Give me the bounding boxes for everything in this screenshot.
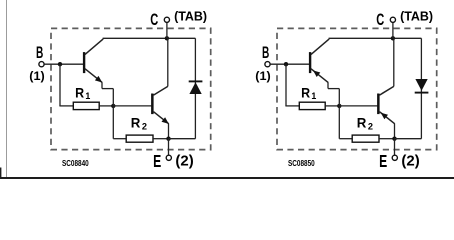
wire R1 to node X	[325, 105, 339, 107]
transistor Q2 base bar	[151, 94, 154, 115]
wire R1 to node X	[99, 105, 113, 107]
diode D1 (anode at C, cathode at E)	[415, 79, 427, 91]
svg-text:1: 1	[311, 91, 316, 101]
svg-text:2: 2	[142, 121, 147, 131]
diode D1 (anode at E, cathode at C)	[189, 80, 203, 82]
svg-text:B: B	[262, 43, 269, 62]
svg-text:R: R	[75, 84, 84, 100]
svg-text:1: 1	[85, 91, 90, 101]
transistor Q1 collector	[311, 39, 329, 55]
wire C rail down to Q2 collector	[167, 38, 169, 86]
svg-text:(2): (2)	[175, 153, 193, 170]
svg-text:E: E	[153, 151, 161, 171]
wire junction down to R1	[285, 64, 287, 106]
junction node C	[165, 36, 169, 40]
svg-text:(1): (1)	[29, 69, 44, 83]
wire Q1 emitter jog to node X	[327, 82, 329, 88]
junction node C	[391, 36, 395, 40]
transistor Q2 emitter	[380, 112, 395, 124]
transistor Q1 base bar	[83, 52, 85, 73]
svg-text:C: C	[376, 10, 384, 29]
diode branch wire	[194, 38, 196, 138]
resistor R1	[73, 102, 99, 109]
transistor Q1 emitter arrow (NPN)	[95, 76, 102, 83]
wire Q2 emitter down to node E	[394, 123, 396, 138]
transistor Q2 emitter arrow (NPN)	[162, 117, 169, 124]
svg-text:C: C	[150, 10, 158, 29]
wire junction down to R1	[59, 64, 61, 106]
svg-text:R: R	[301, 84, 310, 100]
transistor Q2 emitter arrow (PNP)	[381, 113, 388, 120]
transistor Q1 collector	[85, 39, 103, 55]
wire node X down to R2	[338, 106, 340, 139]
svg-text:2: 2	[368, 121, 373, 131]
terminal C	[166, 23, 168, 39]
terminal B	[39, 62, 44, 67]
wire node X down to R2	[112, 106, 114, 139]
page table tick (bottom-left)	[0, 168, 1, 180]
junction node X (R1/R2/Q2 base)	[337, 104, 341, 108]
page table rule (bottom, black)	[0, 177, 454, 179]
wire node X to Q2 base	[113, 105, 152, 107]
wire Q2 emitter down to node E	[168, 123, 170, 138]
junction node B/R1	[58, 62, 62, 66]
transistor Q1 base bar	[309, 52, 311, 73]
terminal B	[265, 62, 270, 67]
junction node E	[166, 137, 170, 141]
svg-text:R: R	[357, 114, 367, 130]
svg-text:(2): (2)	[401, 153, 419, 170]
wire Q1 emitter jog to node X	[101, 82, 103, 88]
resistor R1	[299, 102, 325, 109]
page table rule (left, light gray)	[6, 0, 8, 179]
dashed equivalent-circuit box SC08850	[277, 28, 437, 149]
transistor Q2 emitter	[154, 112, 169, 124]
wire B to Q1 base	[270, 63, 310, 65]
wire R2 to node E	[153, 138, 169, 140]
wire collector top rail	[103, 37, 196, 39]
svg-text:(TAB): (TAB)	[174, 8, 207, 23]
transistor Q2 collector	[154, 86, 168, 95]
svg-text:(1): (1)	[255, 69, 270, 83]
resistor R2	[352, 135, 379, 142]
transistor Q2 base bar	[377, 94, 380, 115]
diode branch wire	[420, 38, 422, 138]
terminal C	[392, 23, 394, 39]
transistor Q1 emitter	[311, 69, 328, 83]
svg-text:R: R	[131, 114, 141, 130]
junction node E	[392, 137, 396, 141]
svg-text:SC08850: SC08850	[288, 159, 315, 168]
wire node E to diode	[395, 138, 422, 140]
wire node X to Q2 base	[339, 105, 378, 107]
wire B to Q1 base	[44, 63, 84, 65]
transistor Q2 collector	[380, 86, 394, 95]
page background	[0, 0, 454, 179]
wire R2 to node E	[379, 138, 395, 140]
svg-text:SC08840: SC08840	[62, 159, 89, 168]
transistor Q1 emitter	[85, 69, 102, 83]
svg-text:E: E	[379, 151, 387, 171]
resistor R2	[126, 135, 153, 142]
junction node B/R1	[284, 62, 288, 66]
terminal E	[168, 139, 170, 155]
junction node X (R1/R2/Q2 base)	[111, 104, 115, 108]
wire node E to diode	[169, 138, 196, 140]
dashed equivalent-circuit box SC08840	[51, 28, 211, 149]
wire collector top rail	[329, 37, 422, 39]
terminal E	[394, 139, 396, 155]
svg-text:B: B	[36, 43, 43, 62]
svg-text:(TAB): (TAB)	[400, 8, 433, 23]
transistor Q1 emitter arrow (PNP)	[313, 70, 320, 77]
wire C rail down to Q2 collector	[393, 38, 395, 86]
